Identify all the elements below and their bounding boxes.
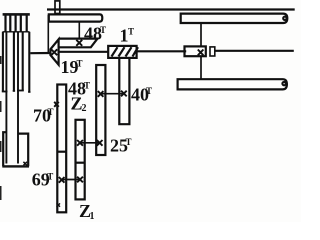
bevel gear 19T: [50, 39, 58, 64]
wire main shaft bevel to worm: [59, 51, 109, 53]
svg-text:2: 2: [82, 103, 87, 114]
svg-text:T: T: [48, 107, 54, 117]
coupling cap: [210, 47, 215, 56]
wire shaft to bevel: [30, 52, 50, 54]
pulley step1 line d: [20, 16, 22, 32]
svg-text:1: 1: [90, 211, 95, 222]
x mark B lower: [77, 177, 83, 183]
pulley step1 line a: [4, 16, 6, 32]
cap lines4-5: [17, 90, 24, 92]
wire shaft worm to box: [137, 50, 187, 52]
gear bar right TR2: [178, 79, 287, 89]
wire connector A2 to B: [62, 179, 80, 181]
x mark A2: [59, 177, 65, 183]
label 70T: [33, 106, 54, 126]
svg-text:T: T: [84, 81, 90, 91]
svg-text:T: T: [126, 137, 132, 147]
label 1T: [120, 26, 135, 46]
wire vertical box to TR2: [200, 56, 202, 79]
x mark bevel 48T: [76, 40, 82, 46]
gear bar A1 (Z2/48T): [57, 85, 66, 213]
left cluster shaft line 2: [5, 32, 7, 164]
svg-text:T: T: [128, 27, 134, 37]
left cluster line 3: [13, 32, 15, 91]
serif line6 end: [28, 91, 30, 93]
gear bar A divider: [57, 151, 66, 153]
svg-text:T: T: [100, 25, 106, 35]
label 40T: [131, 85, 152, 105]
x mark B upper: [77, 140, 83, 146]
cap lines1-2: [2, 91, 8, 93]
x mark 40T: [121, 91, 127, 97]
label Z1: [79, 201, 95, 222]
gear bar top-left: [49, 14, 103, 21]
pulley step1 line b: [9, 16, 11, 32]
x mark A2 left line tick: [57, 203, 60, 206]
bottom gearbox: [3, 132, 28, 166]
gear bar top-right TR1: [181, 14, 288, 23]
left cluster shaft line 4: [17, 32, 19, 164]
pulley step1 line e: [26, 16, 28, 32]
label Z2: [71, 94, 87, 115]
bearing circle TR1: [283, 17, 286, 20]
svg-text:T: T: [146, 86, 152, 96]
wire connector B to C: [80, 142, 101, 144]
x mark C lower: [97, 140, 103, 146]
worm 1T hatched: [108, 46, 136, 58]
bottom gearbox bottom edge: [2, 165, 29, 167]
edge artifacts: [0, 56, 2, 200]
serif line3 end: [13, 90, 15, 92]
x mark C upper: [98, 91, 104, 97]
label 25T: [110, 136, 132, 156]
wire top long shaft: [47, 8, 295, 10]
wire vertical TR1 to box: [200, 23, 202, 46]
tab on top shaft: [55, 1, 60, 14]
label 48T top: [84, 24, 106, 44]
gear bar B divider: [76, 162, 85, 164]
coupling box right: [185, 46, 206, 56]
x mark A1 line: [54, 102, 59, 107]
gear bar C: [96, 65, 105, 155]
gear bar D 40T: [119, 58, 129, 124]
bevel gear 48T flat: [59, 39, 98, 48]
wire vertical left of bar: [47, 15, 49, 52]
left cluster top cap: [3, 13, 30, 16]
wire vertical from bar to 48T bevel: [78, 22, 80, 39]
left cluster line 1: [2, 32, 4, 92]
left cluster line 6: [28, 32, 30, 92]
gear bar B: [76, 120, 85, 200]
label 69T: [32, 170, 54, 190]
label 48T mid: [68, 79, 90, 99]
x mark gearbox corner: [23, 162, 27, 166]
label 19T: [61, 57, 83, 77]
x mark coupling box: [198, 50, 204, 56]
svg-text:T: T: [77, 59, 83, 69]
wire shaft box to right end: [215, 50, 294, 52]
x mark bevel 19T: [51, 49, 57, 55]
pulley step1 line c: [15, 16, 17, 32]
bearing circle TR2: [282, 82, 285, 85]
svg-text:T: T: [47, 172, 53, 182]
wire connector C to 40T: [101, 93, 125, 95]
pulley step boundary: [3, 31, 30, 33]
left cluster line 5: [22, 32, 24, 91]
